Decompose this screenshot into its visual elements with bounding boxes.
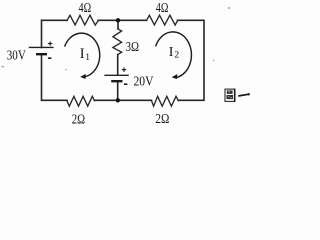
figure caption character tu (boxed glyph) [225, 89, 236, 102]
scan speckle right middle [213, 60, 214, 61]
svg-text:20V: 20V [134, 75, 154, 90]
scan speckle top right [228, 7, 230, 9]
battery V1 plus sign [48, 41, 53, 45]
resistor R2 4ohm top-right zigzag [147, 15, 178, 25]
mesh current loop I1 arrowhead [81, 74, 86, 78]
scan speckle left edge [2, 66, 4, 67]
svg-text:4Ω: 4Ω [79, 1, 92, 16]
svg-text:3Ω: 3Ω [126, 40, 139, 55]
mesh current loop I2 arrowhead [172, 75, 177, 79]
battery V2 20V long plate [104, 74, 128, 76]
wire middle branch upper [117, 20, 119, 29]
svg-text:1: 1 [85, 53, 90, 63]
svg-text:4Ω: 4Ω [156, 1, 169, 16]
wire bottom-middle segment [95, 99, 152, 101]
resistor R1 4ohm top-left zigzag [67, 15, 98, 25]
node junction dot bottom middle [116, 98, 120, 102]
wire top-middle segment [98, 19, 146, 21]
wire middle branch lower [117, 81, 119, 100]
svg-text:I: I [169, 45, 174, 60]
svg-text:2: 2 [174, 51, 179, 61]
resistor R4 2ohm bottom-right zigzag [152, 96, 179, 106]
wire top-right segment and right rail [178, 20, 205, 100]
battery V2 20V short thick plate [111, 80, 122, 82]
figure caption character yi (horizontal stroke) [239, 94, 249, 96]
battery V1 30V short thick plate [36, 53, 47, 55]
svg-text:I: I [80, 46, 85, 62]
battery V1 30V long plate [29, 46, 54, 48]
wire top-left segment [42, 20, 68, 47]
mesh current loop I2 arc [156, 32, 192, 78]
mesh current loop I1 arc [65, 33, 100, 77]
resistor R3 2ohm bottom-left zigzag [67, 96, 95, 106]
resistor R5 3ohm vertical zigzag [113, 29, 122, 55]
battery V2 minus sign [124, 83, 127, 85]
battery V2 plus sign [122, 68, 126, 72]
svg-text:2Ω: 2Ω [72, 113, 85, 128]
battery V1 minus sign [48, 57, 52, 59]
svg-text:30V: 30V [7, 49, 26, 64]
wire middle branch between 3ohm and 20V battery [117, 55, 119, 76]
node junction dot top middle [116, 18, 120, 22]
wire bottom-left segment and lower left rail [42, 54, 68, 100]
scan speckle inside loop I1 [65, 69, 66, 70]
svg-text:2Ω: 2Ω [155, 112, 169, 127]
